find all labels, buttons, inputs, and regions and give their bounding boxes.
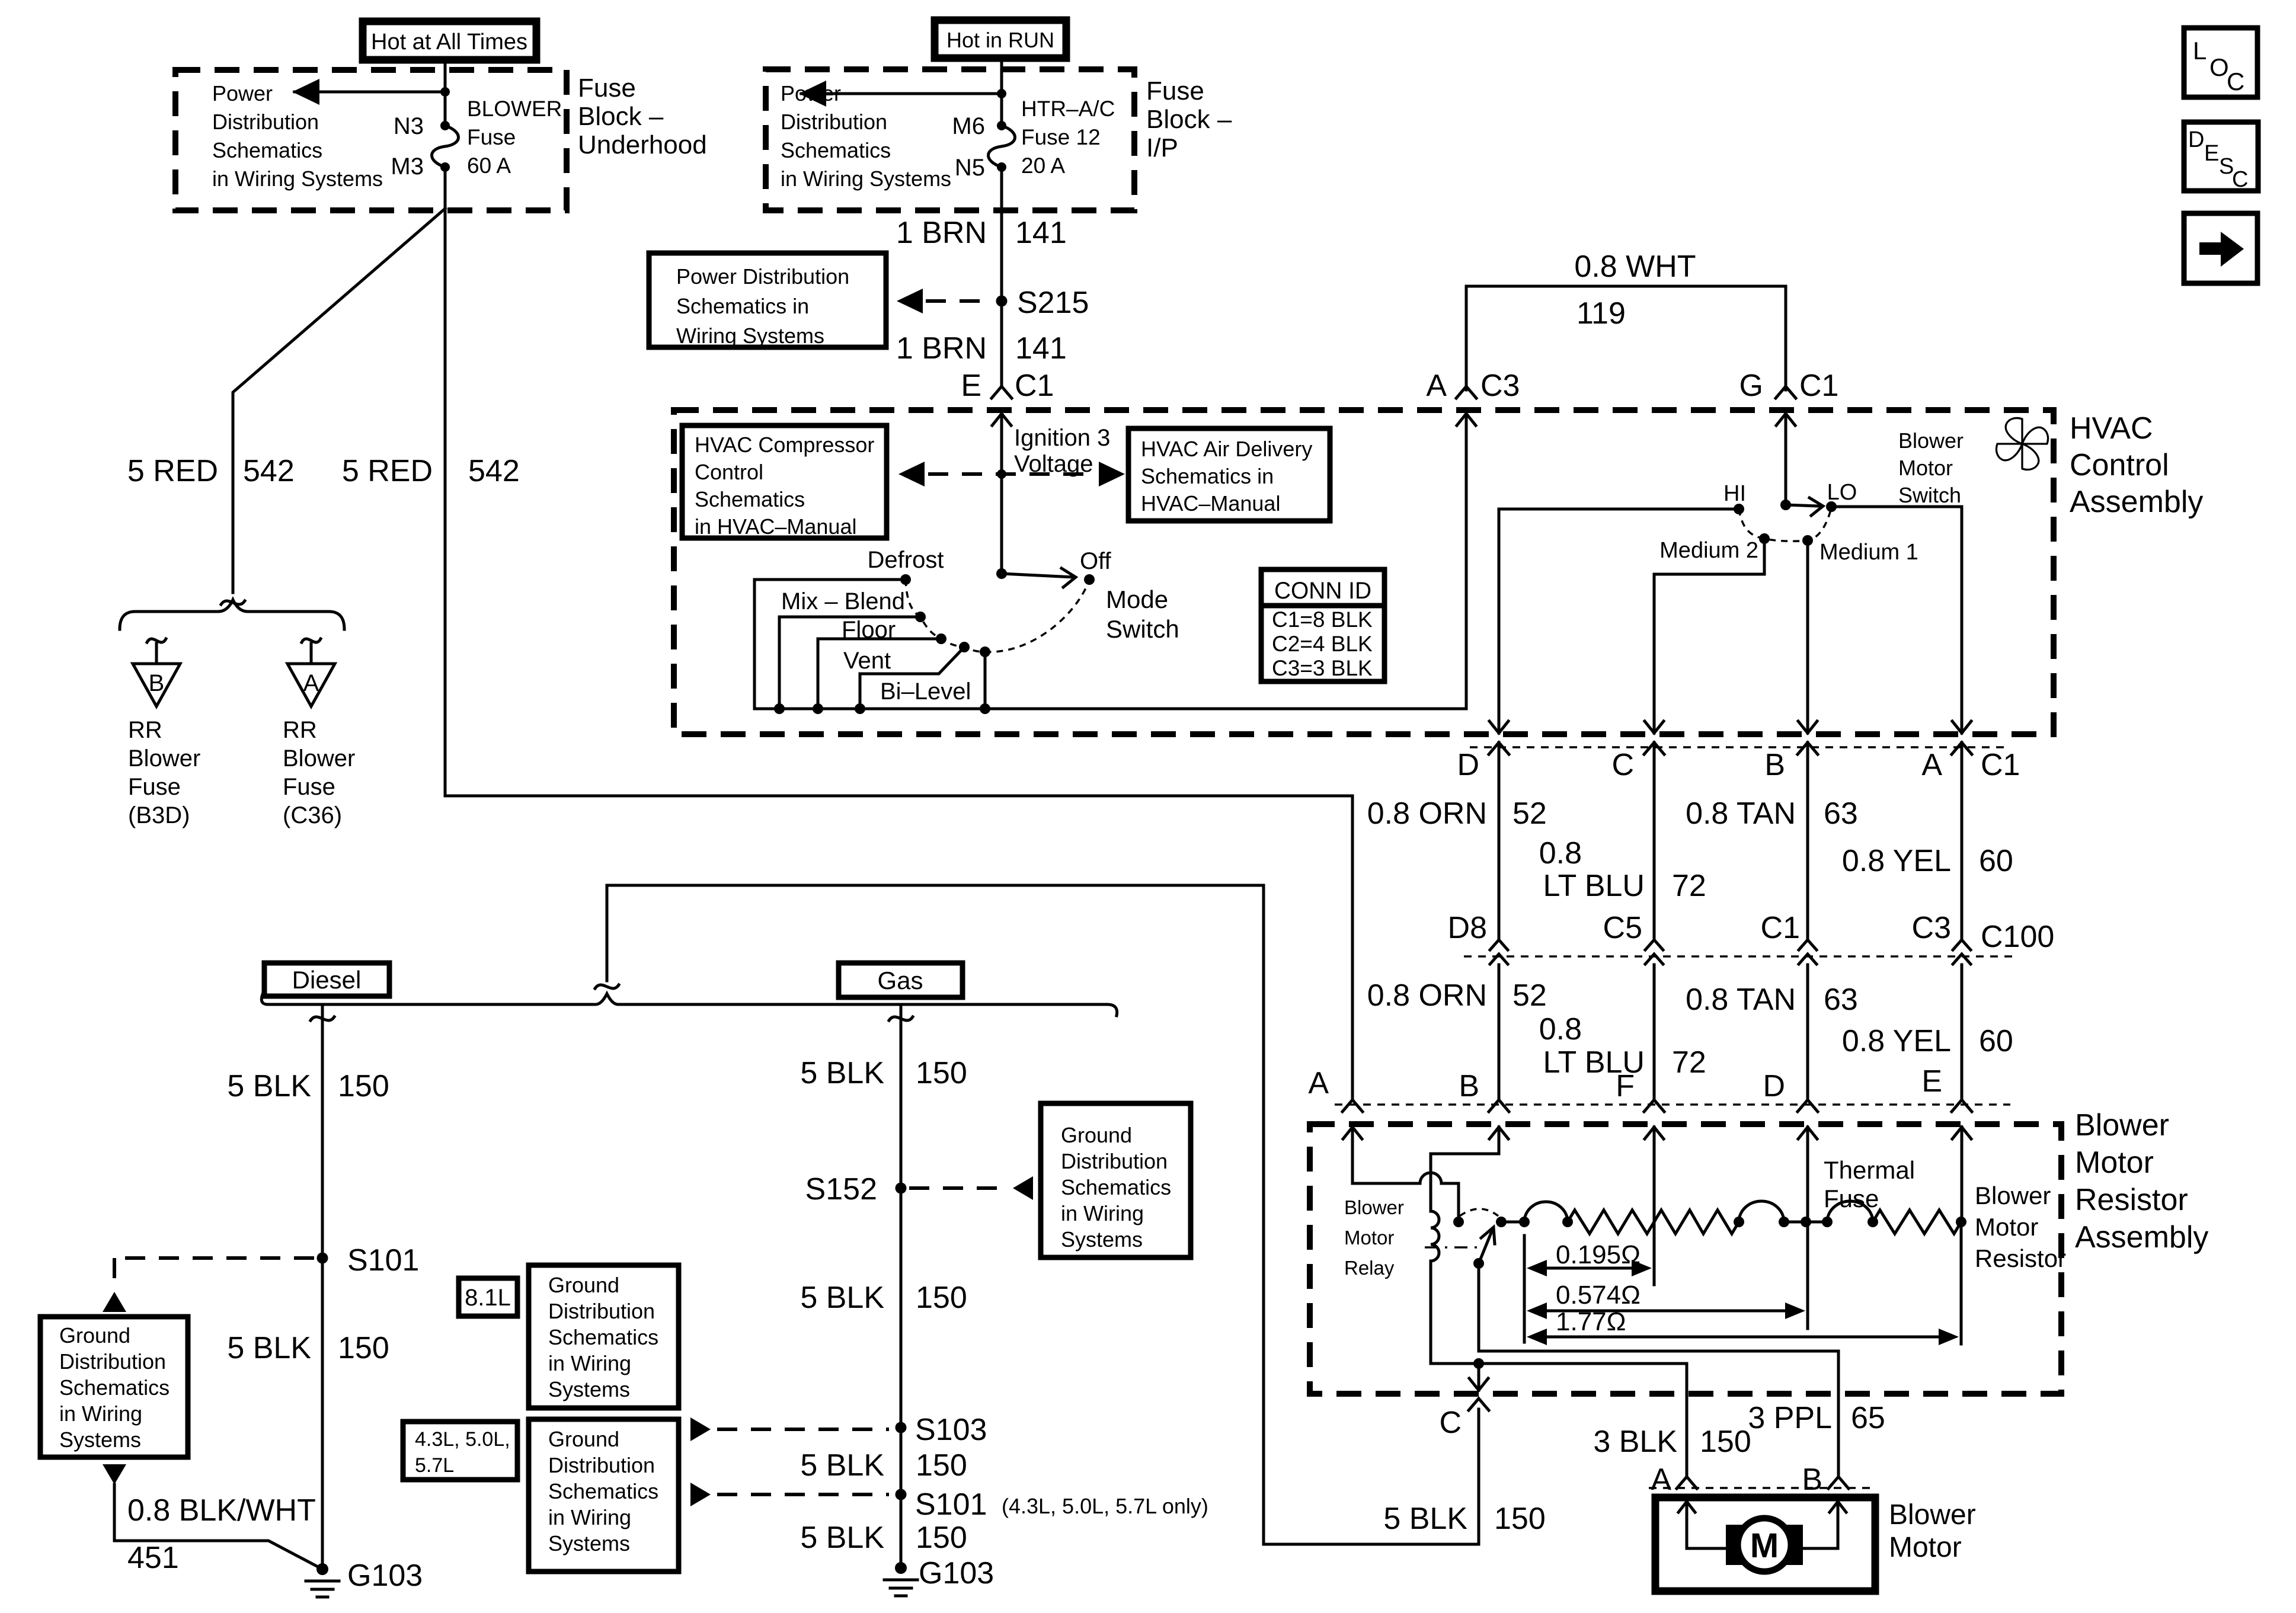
fan icon xyxy=(2006,418,2022,444)
svg-text:Blower: Blower xyxy=(1898,428,1964,453)
wire from Hot in RUN xyxy=(1000,58,1003,94)
arrow into motor pin B xyxy=(1837,1502,1840,1548)
svg-text:Blower: Blower xyxy=(283,745,355,772)
dashed reference from S152 to ground box xyxy=(909,1186,1008,1190)
svg-text:Fuse: Fuse xyxy=(1146,76,1204,105)
arrow into connector E inside resistor box xyxy=(1961,1127,1964,1222)
svg-text:150: 150 xyxy=(916,1521,967,1555)
svg-text:60 A: 60 A xyxy=(467,153,511,178)
svg-text:150: 150 xyxy=(338,1331,389,1365)
svg-text:HI: HI xyxy=(1723,481,1746,506)
svg-text:5 RED: 5 RED xyxy=(342,454,433,488)
svg-text:Block –: Block – xyxy=(578,102,664,131)
brace splitting to RR blower fuses xyxy=(120,600,344,629)
arrow out of box at A xyxy=(1961,720,1964,733)
svg-text:Fuse 12: Fuse 12 xyxy=(1021,125,1101,149)
svg-text:Fuse: Fuse xyxy=(467,125,516,149)
dimension tick left xyxy=(1523,1236,1526,1342)
resistor end junction E xyxy=(1956,1217,1966,1227)
svg-text:N3: N3 xyxy=(394,113,424,139)
svg-text:C5: C5 xyxy=(1603,911,1642,945)
wire 0.8 ORN 52 (upper) xyxy=(1498,743,1501,939)
svg-text:Ground: Ground xyxy=(548,1273,619,1297)
arrow into connector G C1 (switch feed) xyxy=(1785,414,1787,505)
relay fixed contact dot xyxy=(1453,1217,1464,1227)
wire bus riser to connector A C3 xyxy=(1465,415,1468,709)
svg-text:Power Distribution: Power Distribution xyxy=(676,264,849,289)
svg-text:Switch: Switch xyxy=(1106,615,1179,643)
svg-text:C1: C1 xyxy=(1981,748,2020,782)
svg-text:Hot in RUN: Hot in RUN xyxy=(946,28,1054,52)
svg-text:Schematics: Schematics xyxy=(781,138,891,162)
svg-text:S103: S103 xyxy=(915,1413,987,1447)
fuse block underhood dashed box xyxy=(175,70,567,210)
svg-text:HVAC Air Delivery: HVAC Air Delivery xyxy=(1141,437,1312,461)
svg-text:in Wiring: in Wiring xyxy=(548,1505,631,1529)
svg-text:D8: D8 xyxy=(1448,911,1487,945)
connector chevron A C3 xyxy=(1456,386,1476,398)
svg-text:M6: M6 xyxy=(952,113,985,139)
svg-text:C2=4 BLK: C2=4 BLK xyxy=(1272,632,1373,656)
svg-text:RR: RR xyxy=(283,717,317,743)
svg-text:Mode: Mode xyxy=(1106,585,1168,613)
svg-text:0.8 YEL: 0.8 YEL xyxy=(1842,1024,1951,1058)
blower motor resistor element 2 xyxy=(1654,1210,1739,1234)
svg-text:C: C xyxy=(2227,68,2244,95)
Mix-Blend wire xyxy=(779,617,920,709)
svg-text:D: D xyxy=(2188,127,2204,152)
Diesel tag box xyxy=(264,963,389,996)
chain wire to D junction xyxy=(1784,1221,1827,1224)
svg-text:Systems: Systems xyxy=(548,1377,630,1401)
dimension arrow 0.195 xyxy=(1535,1267,1644,1270)
svg-text:5 BLK: 5 BLK xyxy=(227,1331,311,1365)
svg-text:S152: S152 xyxy=(805,1172,877,1206)
wire from Hot at All Times into fuse block xyxy=(444,60,447,92)
legend box arrow xyxy=(2184,213,2257,283)
HVAC Control Assembly dashed box xyxy=(674,410,2054,734)
connector chevrons row 3 xyxy=(1342,1100,1363,1112)
wire 0.8 LT BLU 72 (upper) xyxy=(1653,743,1656,939)
relay contact feed from connector A with hop over coil wire xyxy=(1352,1182,1420,1185)
svg-text:Wiring Systems: Wiring Systems xyxy=(676,324,824,348)
svg-text:Assembly: Assembly xyxy=(2075,1220,2208,1254)
reference box Ground Distribution (S152) xyxy=(1041,1103,1191,1257)
svg-text:C3=3 BLK: C3=3 BLK xyxy=(1272,656,1373,680)
wire 0.8 TAN 63 (lower) xyxy=(1806,965,1809,1098)
mode switch Off contact xyxy=(1084,574,1095,585)
splice S215 xyxy=(996,296,1008,307)
splice S103 xyxy=(896,1422,907,1433)
svg-text:(4.3L, 5.0L, 5.7L only): (4.3L, 5.0L, 5.7L only) xyxy=(1002,1494,1208,1518)
wire break squiggle gas xyxy=(889,1017,913,1020)
svg-text:0.195Ω: 0.195Ω xyxy=(1556,1240,1641,1269)
svg-text:Blower: Blower xyxy=(2075,1108,2169,1142)
svg-text:G103: G103 xyxy=(919,1556,994,1590)
blower motor resistor element 1 xyxy=(1568,1210,1654,1234)
arrow into connector F inside resistor box xyxy=(1653,1127,1656,1222)
svg-text:Systems: Systems xyxy=(548,1531,630,1556)
svg-text:Switch: Switch xyxy=(1898,483,1961,507)
svg-text:B: B xyxy=(1764,748,1785,782)
svg-text:A: A xyxy=(1308,1066,1329,1100)
reference box Ground Distribution (diesel) xyxy=(40,1317,188,1457)
svg-text:(B3D): (B3D) xyxy=(128,802,190,828)
svg-text:HVAC–Manual: HVAC–Manual xyxy=(1141,491,1280,516)
Medium 2 wire to connector C xyxy=(1654,539,1764,720)
svg-text:0.574Ω: 0.574Ω xyxy=(1556,1281,1641,1310)
wire 0.8 WHT 119 xyxy=(1466,286,1786,390)
svg-text:3 BLK: 3 BLK xyxy=(1593,1425,1677,1459)
BLOWER fuse 60A symbol xyxy=(440,121,450,130)
svg-text:Underhood: Underhood xyxy=(578,130,707,159)
Medium 1 contact dot xyxy=(1802,535,1813,546)
svg-text:Schematics: Schematics xyxy=(548,1479,658,1503)
blower switch contact arc dashed xyxy=(1739,508,1831,541)
thermal fuse dot right xyxy=(1868,1217,1878,1227)
dashed reference arrow to S215 xyxy=(897,289,923,313)
svg-text:Ignition 3: Ignition 3 xyxy=(1014,425,1110,451)
svg-text:Schematics: Schematics xyxy=(1061,1175,1171,1199)
arrow into connector A inside resistor box xyxy=(1351,1127,1354,1183)
svg-text:HVAC: HVAC xyxy=(2070,411,2153,446)
svg-text:RR: RR xyxy=(128,717,162,743)
svg-text:0.8 TAN: 0.8 TAN xyxy=(1686,796,1796,831)
wire 1 BRN 141 from S215 to connector E C1 xyxy=(1000,306,1003,385)
svg-text:Diesel: Diesel xyxy=(292,966,362,994)
svg-text:Motor: Motor xyxy=(1344,1227,1394,1249)
Gas ground wire upper xyxy=(900,1004,903,1188)
svg-text:0.8 WHT: 0.8 WHT xyxy=(1574,249,1696,284)
dashed reference to S101 gas xyxy=(690,1483,711,1506)
svg-text:C100: C100 xyxy=(1981,920,2054,954)
svg-text:I/P: I/P xyxy=(1146,133,1178,162)
svg-text:C1: C1 xyxy=(1799,369,1838,403)
svg-text:L: L xyxy=(2193,37,2207,65)
wire 0.8 ORN 52 (lower) xyxy=(1498,965,1501,1098)
svg-text:in Wiring Systems: in Wiring Systems xyxy=(781,167,951,191)
svg-text:Blower: Blower xyxy=(1889,1499,1976,1531)
junction dot I/P feed xyxy=(997,89,1006,98)
mode switch Floor contact xyxy=(936,633,946,644)
splice S101 gas xyxy=(896,1489,907,1500)
svg-text:E: E xyxy=(1921,1064,1942,1099)
wire 0.8 TAN 63 (upper) xyxy=(1806,743,1809,939)
svg-text:A: A xyxy=(1651,1462,1671,1497)
arrow into connector B inside resistor box xyxy=(1498,1127,1501,1154)
connector chevrons row C1 xyxy=(1489,743,1509,754)
svg-text:Vent: Vent xyxy=(843,648,891,674)
svg-text:BLOWER: BLOWER xyxy=(467,97,562,121)
in-line connector double chevrons xyxy=(1490,940,1508,950)
mode switch wiper arrow to Off xyxy=(1002,574,1074,577)
relay contact motion dashed arc xyxy=(1460,1209,1498,1216)
svg-text:Gas: Gas xyxy=(877,966,923,994)
junction dot feed xyxy=(440,87,450,97)
svg-text:Fuse: Fuse xyxy=(1824,1185,1879,1212)
title box 'Hot at All Times' xyxy=(363,21,536,60)
HI contact dot xyxy=(1734,504,1744,514)
svg-text:5 RED: 5 RED xyxy=(127,454,218,488)
connector chevron E C1 xyxy=(992,386,1012,398)
svg-text:0.8: 0.8 xyxy=(1539,1012,1582,1046)
RR Blower Fuse (C36) symbol A xyxy=(302,639,321,642)
svg-text:Fuse: Fuse xyxy=(128,774,181,800)
resistor chain wire start xyxy=(1501,1221,1524,1224)
CONN ID table box xyxy=(1261,569,1384,681)
wire to fuse terminal N3 xyxy=(444,92,447,126)
svg-text:E: E xyxy=(2204,141,2219,166)
svg-text:0.8 YEL: 0.8 YEL xyxy=(1842,844,1951,878)
svg-text:4.3L, 5.0L,: 4.3L, 5.0L, xyxy=(415,1428,510,1451)
mode switch contact arc dashed xyxy=(906,580,1088,652)
svg-text:5 BLK: 5 BLK xyxy=(227,1069,311,1103)
mode switch Mix-Blend contact xyxy=(915,612,926,622)
svg-text:Hot at All Times: Hot at All Times xyxy=(371,30,527,55)
svg-text:Blower: Blower xyxy=(1975,1182,2051,1209)
svg-text:5 BLK: 5 BLK xyxy=(800,1521,884,1555)
connector band C100 xyxy=(1464,955,2015,958)
svg-text:5.7L: 5.7L xyxy=(415,1454,454,1477)
svg-text:Block –: Block – xyxy=(1146,105,1232,134)
svg-text:Control: Control xyxy=(695,460,763,484)
arrow out of box at B xyxy=(1806,720,1809,733)
svg-text:5 BLK: 5 BLK xyxy=(800,1448,884,1483)
svg-text:G103: G103 xyxy=(347,1558,423,1593)
svg-text:Distribution: Distribution xyxy=(59,1349,166,1374)
svg-text:Schematics: Schematics xyxy=(212,138,322,162)
wire fuse output xyxy=(444,167,447,209)
arrow to Power Distribution Schematics (I/P) xyxy=(801,92,1000,95)
chain dot 3 xyxy=(1734,1217,1744,1227)
legend box DESC xyxy=(2184,122,2258,191)
svg-text:O: O xyxy=(2209,53,2229,81)
svg-text:C1: C1 xyxy=(1761,911,1800,945)
RR Blower Fuse (B3D) symbol B xyxy=(147,639,166,642)
svg-text:B: B xyxy=(1459,1069,1479,1103)
connector band C1 below HVAC box xyxy=(1470,746,2010,748)
svg-text:52: 52 xyxy=(1512,978,1547,1013)
svg-text:C: C xyxy=(1439,1406,1462,1440)
svg-text:63: 63 xyxy=(1824,796,1858,831)
svg-text:C1: C1 xyxy=(1015,369,1054,403)
connector chevron C xyxy=(1469,1398,1489,1410)
svg-text:C: C xyxy=(2232,167,2248,192)
svg-text:in Wiring: in Wiring xyxy=(59,1401,142,1426)
motor internal wires xyxy=(1687,1547,1727,1550)
svg-text:60: 60 xyxy=(1979,844,2013,878)
solid triangle arrow down xyxy=(103,1464,126,1484)
svg-text:Resistor: Resistor xyxy=(2075,1183,2188,1217)
svg-text:Control: Control xyxy=(2070,448,2169,482)
svg-text:Defrost: Defrost xyxy=(868,547,944,573)
svg-text:72: 72 xyxy=(1672,1045,1706,1080)
svg-text:Off: Off xyxy=(1080,548,1112,574)
thermal fuse dot left xyxy=(1822,1217,1833,1227)
wire to mode switch common xyxy=(1000,474,1003,570)
svg-text:8.1L: 8.1L xyxy=(465,1285,511,1311)
svg-text:0.8 TAN: 0.8 TAN xyxy=(1686,982,1796,1017)
wire 0.8 BLK/WHT 451 xyxy=(114,1484,322,1569)
svg-text:Distribution: Distribution xyxy=(548,1299,655,1323)
splice S152 xyxy=(896,1183,907,1194)
svg-text:Fuse: Fuse xyxy=(578,73,636,103)
svg-text:119: 119 xyxy=(1576,296,1626,331)
svg-text:Schematics: Schematics xyxy=(695,487,805,511)
svg-text:Motor: Motor xyxy=(2075,1145,2154,1180)
svg-text:LT BLU: LT BLU xyxy=(1543,869,1645,903)
svg-text:150: 150 xyxy=(1700,1425,1751,1459)
svg-text:150: 150 xyxy=(916,1056,967,1090)
svg-text:Motor: Motor xyxy=(1889,1532,1962,1563)
svg-text:Schematics in: Schematics in xyxy=(1141,464,1274,488)
wire break squiggle xyxy=(221,601,245,604)
svg-text:65: 65 xyxy=(1851,1401,1885,1435)
svg-text:0.8 ORN: 0.8 ORN xyxy=(1367,978,1487,1013)
bus junction dots xyxy=(774,703,785,714)
svg-text:HTR–A/C: HTR–A/C xyxy=(1021,97,1115,121)
svg-text:63: 63 xyxy=(1824,982,1858,1017)
svg-text:Mix – Blend: Mix – Blend xyxy=(781,588,905,615)
HI wire to connector D xyxy=(1499,509,1739,720)
svg-text:C3: C3 xyxy=(1912,911,1951,945)
relay coil xyxy=(1431,1211,1439,1261)
svg-text:M: M xyxy=(1750,1526,1779,1565)
svg-text:141: 141 xyxy=(1015,331,1067,366)
Defrost wire xyxy=(754,580,906,709)
svg-text:72: 72 xyxy=(1672,869,1706,903)
relay common output dot xyxy=(1496,1217,1507,1227)
dashed reference line ignition voltage xyxy=(898,462,925,487)
svg-text:1 BRN: 1 BRN xyxy=(896,331,987,366)
svg-text:1.77Ω: 1.77Ω xyxy=(1556,1307,1626,1336)
svg-text:Bi–Level: Bi–Level xyxy=(880,679,971,705)
svg-text:C1=8 BLK: C1=8 BLK xyxy=(1272,607,1373,632)
resistor junction F xyxy=(1653,1222,1656,1285)
Gas tag box xyxy=(839,963,962,997)
svg-text:Systems: Systems xyxy=(59,1428,141,1452)
junction dot D xyxy=(1801,1217,1811,1227)
Vent wire xyxy=(860,647,964,709)
svg-text:Distribution: Distribution xyxy=(212,110,319,134)
dashed reference to S103 xyxy=(690,1417,711,1441)
svg-text:Blower: Blower xyxy=(1344,1196,1404,1218)
wire 0.8 YEL 60 (lower) xyxy=(1961,965,1964,1098)
connector band into blower motor resistor assembly xyxy=(1335,1103,2010,1106)
svg-text:5 BLK: 5 BLK xyxy=(800,1056,884,1090)
ground G103 diesel xyxy=(316,1563,328,1575)
relay mechanical link dash-dot xyxy=(1425,1246,1480,1249)
mode switch output bus xyxy=(754,708,1466,711)
reference box HVAC Compressor Control Schematics in HVAC-Manual xyxy=(682,425,887,538)
tag box 8.1L xyxy=(459,1278,517,1316)
svg-text:Medium 1: Medium 1 xyxy=(1819,540,1918,565)
dimension arrow 1.77 xyxy=(1535,1336,1951,1339)
svg-text:B: B xyxy=(1802,1462,1822,1497)
title box 'Hot in RUN' xyxy=(935,20,1066,58)
arrow out of box at C xyxy=(1653,720,1656,733)
splice S101 diesel xyxy=(317,1253,328,1264)
svg-text:Distribution: Distribution xyxy=(1061,1149,1168,1173)
svg-text:S101: S101 xyxy=(915,1487,987,1522)
svg-text:Schematics: Schematics xyxy=(548,1325,658,1349)
svg-text:5 BLK: 5 BLK xyxy=(1383,1502,1467,1536)
svg-text:3 PPL: 3 PPL xyxy=(1748,1401,1832,1435)
chain dot 1 xyxy=(1519,1217,1530,1227)
Diesel ground wire lower xyxy=(321,1264,324,1569)
svg-text:Motor: Motor xyxy=(1898,456,1953,480)
arrow out of box at D xyxy=(1498,720,1501,733)
svg-text:Schematics: Schematics xyxy=(59,1375,170,1400)
coil return wire to 3 BLK and C xyxy=(1431,1364,1687,1476)
dimension arrow 0.574 xyxy=(1535,1310,1797,1313)
wire 5 RED 542 diagonal branch to RR blower fuses xyxy=(233,209,445,593)
svg-text:Relay: Relay xyxy=(1344,1257,1395,1279)
LO wire to connector A xyxy=(1831,507,1962,720)
svg-text:in HVAC–Manual: in HVAC–Manual xyxy=(695,514,856,539)
svg-text:542: 542 xyxy=(468,454,520,488)
Medium 1 wire to connector B xyxy=(1806,540,1809,720)
svg-text:(C36): (C36) xyxy=(283,802,342,828)
svg-text:20 A: 20 A xyxy=(1021,153,1065,178)
svg-text:A: A xyxy=(1921,748,1942,782)
blower motor resistor element 3 xyxy=(1873,1210,1961,1234)
svg-text:B: B xyxy=(149,670,165,696)
svg-text:S101: S101 xyxy=(347,1243,419,1278)
Floor wire xyxy=(818,639,941,709)
reference box Ground Distribution (8.1L) xyxy=(529,1265,679,1408)
svg-text:in Wiring: in Wiring xyxy=(1061,1201,1144,1225)
svg-text:D: D xyxy=(1457,748,1479,782)
chain dot 2 xyxy=(1562,1217,1573,1227)
wire 5 RED 542 main run to blower relay xyxy=(445,209,1352,1099)
connector chevron motor B xyxy=(1828,1477,1849,1489)
wire 1 BRN 141 from fuse to S215 xyxy=(1000,167,1003,296)
solid triangle arrow up xyxy=(103,1292,126,1312)
tag box 4.3L 5.0L 5.7L xyxy=(403,1422,517,1480)
relay coil feed wire from B xyxy=(1431,1154,1499,1211)
reference box Ground Distribution (4.3/5.0/5.7) xyxy=(529,1419,679,1572)
reference box HVAC Air Delivery Schematics in HVAC-Manual xyxy=(1128,428,1330,521)
junction dot to ground pin C xyxy=(1473,1358,1484,1369)
Diesel ground wire upper xyxy=(321,1004,324,1253)
svg-text:542: 542 xyxy=(243,454,295,488)
svg-text:S215: S215 xyxy=(1017,286,1089,320)
svg-text:D: D xyxy=(1763,1069,1785,1103)
svg-text:A: A xyxy=(303,670,319,696)
connector chevron G C1 xyxy=(1776,386,1796,398)
wire break squiggle diesel xyxy=(311,1017,334,1020)
arrow into connector A C3 xyxy=(1457,414,1476,425)
svg-text:LO: LO xyxy=(1827,480,1857,505)
relay armature arm with arrowhead xyxy=(1479,1231,1492,1263)
blower switch input dot xyxy=(1780,500,1791,510)
svg-text:Assembly: Assembly xyxy=(2070,485,2203,519)
arrow out of resistor box at C xyxy=(1478,1369,1480,1390)
fusible bump 1 xyxy=(1524,1202,1568,1222)
svg-text:150: 150 xyxy=(1494,1502,1546,1536)
motor brushes block xyxy=(1726,1525,1803,1565)
svg-text:G: G xyxy=(1739,369,1763,403)
mode switch Vent contact xyxy=(959,642,970,652)
fusible bump 2 xyxy=(1739,1201,1784,1222)
svg-text:C3: C3 xyxy=(1480,369,1520,403)
svg-text:Blower: Blower xyxy=(128,745,200,772)
arrow into motor pin A xyxy=(1686,1502,1689,1548)
mode switch Defrost contact and label xyxy=(900,574,911,585)
Blower Motor box xyxy=(1655,1497,1875,1591)
relay output wire to 3 PPL (connector B of motor) xyxy=(1479,1263,1838,1476)
